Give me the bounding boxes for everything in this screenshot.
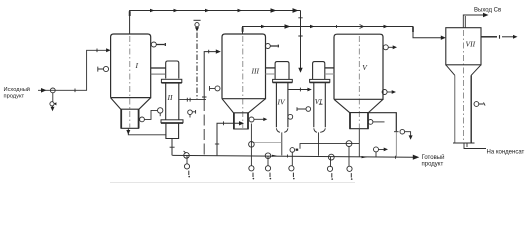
svg-text:II: II — [167, 93, 173, 102]
svg-text:I: I — [135, 61, 139, 70]
svg-text:Готовый: Готовый — [422, 154, 445, 161]
svg-text:VI: VI — [315, 97, 323, 106]
svg-text:продукт: продукт — [4, 93, 25, 99]
svg-text:Выход Св: Выход Св — [474, 8, 501, 14]
svg-text:VII: VII — [466, 40, 476, 49]
svg-text:III: III — [251, 67, 260, 76]
svg-text:На конденсат: На конденсат — [487, 150, 525, 156]
svg-text:Исходный: Исходный — [4, 86, 30, 93]
svg-text:IV: IV — [277, 98, 286, 107]
svg-text:продукт: продукт — [422, 162, 444, 168]
